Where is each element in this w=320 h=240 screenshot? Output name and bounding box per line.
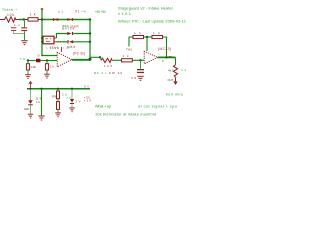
junction node (90,19.5) xyxy=(89,18,91,20)
wire mid-chain down to op-amp U3 top xyxy=(146,37,148,51)
wire branch capacitor C1 (x24 down) xyxy=(24,20,26,28)
ground below drop4 xyxy=(69,107,74,112)
svg-text:Stageguard v2 - Intake Heater: Stageguard v2 - Intake Heater xyxy=(118,5,174,10)
svg-text:1k: 1k xyxy=(123,54,130,58)
wire op-amp U3 output (thick) xyxy=(158,56,176,58)
diode D2 (points left) xyxy=(67,40,73,43)
wire divider left leg xyxy=(27,61,29,64)
svg-text:zd: zd xyxy=(67,96,71,100)
svg-text:BAT54: BAT54 xyxy=(62,26,74,30)
svg-text:10k thermistor at intake manif: 10k thermistor at intake manifold xyxy=(95,113,156,117)
resistor R11 (vertical box) xyxy=(57,102,60,110)
wire vertical bus x90 xyxy=(89,20,91,60)
svg-text:OUT: OUT xyxy=(168,78,174,82)
wire D2 to bus xyxy=(74,41,91,43)
output arrow down xyxy=(175,78,177,82)
label pin 2 marker (red on output wire) xyxy=(169,56,172,57)
supply symbol above bottom rail xyxy=(30,84,32,88)
junction node (72,88.7) xyxy=(71,88,73,90)
resistor R9 (vertical zigzag) xyxy=(173,65,177,78)
wire stub down into R5 xyxy=(100,57,102,60)
wire vertical net +IN (x42) down to op-amp input xyxy=(42,10,57,56)
wire R3 to ground xyxy=(27,70,29,74)
junction node output/bus (90,59.5) xyxy=(89,58,92,61)
svg-text:10k: 10k xyxy=(31,65,37,69)
svg-text:FW 20: FW 20 xyxy=(109,71,122,75)
svg-text:IC1A: IC1A xyxy=(50,46,59,50)
svg-text:+5V: +5V xyxy=(84,99,91,103)
junction node (90,41.8) xyxy=(89,41,91,43)
svg-text:4k7: 4k7 xyxy=(168,68,173,72)
wire ZD1 to ground xyxy=(71,104,73,107)
LED D7 (points down) xyxy=(28,100,33,105)
resistor R1 (zigzag) with leads xyxy=(0,17,19,22)
optocoupler U2 inner marks xyxy=(45,38,51,42)
op-amp U3 (comparator triangle) xyxy=(144,51,158,64)
wire R4 to ground xyxy=(46,70,48,74)
junction node opto pin1 (42,38) xyxy=(41,37,43,39)
wire R8 right end corner down (feedback) xyxy=(163,37,167,57)
wire R7 to R8 xyxy=(144,36,153,38)
wire R5 to R6 xyxy=(112,59,122,61)
svg-text:X1 ~∿: X1 ~∿ xyxy=(75,9,86,13)
svg-text:+5V +5V: +5V +5V xyxy=(95,10,107,14)
op-amp U1 (comparator triangle) xyxy=(57,52,72,67)
junction node at (42,19.5) xyxy=(41,18,43,20)
svg-text:v 1.0.1: v 1.0.1 xyxy=(118,11,132,16)
wire LED to ground xyxy=(30,106,32,114)
svg-text:(MC33): (MC33) xyxy=(158,47,171,51)
junction node (100,57.3) xyxy=(99,56,101,58)
ground below R3 xyxy=(25,74,31,79)
ground below C5 xyxy=(137,76,143,81)
junction node (30.5,88.7) xyxy=(29,88,31,90)
opto right pin stubs (red) xyxy=(54,38,57,42)
wire op-amp U1 output (thick) xyxy=(72,59,90,61)
svg-text:5V: 5V xyxy=(84,84,89,88)
wire from C2 to C1 net xyxy=(14,31,25,33)
op-amp U1 power stub xyxy=(61,47,63,52)
svg-text:lm: lm xyxy=(63,46,70,50)
svg-text:Therm +: Therm + xyxy=(2,8,17,12)
junction node at (24,19.5) xyxy=(23,18,25,20)
svg-text:a1: a1 xyxy=(58,10,63,14)
resistor R4 (vertical box) xyxy=(45,64,48,70)
resistor R2 (box) with red leads xyxy=(25,18,42,21)
capacitor C2 plates xyxy=(11,27,16,31)
resistor R10 (vertical box) xyxy=(57,91,60,99)
capacitor C5 plates xyxy=(137,69,144,73)
wire after D4 into op-amp xyxy=(40,60,57,62)
wire output corner down xyxy=(175,57,177,64)
diode D1 (points right) xyxy=(67,32,73,35)
supply pin marker at top of vertical net xyxy=(41,8,43,10)
wire divider right leg xyxy=(46,61,48,64)
zener diode ZD1 (points down) xyxy=(70,99,74,104)
wire main top rail (left part) xyxy=(19,19,25,21)
svg-text:1n: 1n xyxy=(14,23,20,27)
wire op-amp U1 lower input xyxy=(28,60,36,62)
node label THERM (green, top-left) xyxy=(2,8,17,12)
wire opto top output (steps up, goes right) xyxy=(57,34,68,39)
svg-text:3V: 3V xyxy=(76,99,81,103)
svg-text:D4: D4 xyxy=(38,54,43,58)
svg-text:(PC 3x): (PC 3x) xyxy=(73,51,85,55)
inline diode D5 on top rail (x53-59) xyxy=(53,18,58,21)
junction node opto pin2 (42,41.8) xyxy=(41,41,43,43)
svg-text:1k: 1k xyxy=(36,100,41,104)
svg-text:o1: o1 xyxy=(181,68,186,72)
ground below drop3 xyxy=(55,112,61,117)
ground symbol below C1 xyxy=(21,40,27,45)
svg-text:1k: 1k xyxy=(153,31,161,35)
ground below LED xyxy=(28,114,33,119)
junction node (58,88.7) xyxy=(57,88,59,90)
junction node (90,33.5) xyxy=(89,32,91,34)
svg-text:at cut signal + cpu: at cut signal + cpu xyxy=(138,105,177,109)
resistor R5 (zigzag) xyxy=(101,58,112,62)
svg-text:LED: LED xyxy=(24,107,29,111)
wire output to R5 xyxy=(90,56,101,58)
wire between stack xyxy=(57,99,59,102)
wire main top rail (right part to corner x90) xyxy=(42,19,91,21)
wire drop 1 (LED branch) xyxy=(30,90,32,101)
svg-text:TH: TH xyxy=(20,57,25,61)
optocoupler U2 (box) xyxy=(43,36,54,44)
diode D4 (solid, on input wire) xyxy=(36,59,40,63)
svg-text:1k: 1k xyxy=(50,65,55,69)
svg-text:1k5: 1k5 xyxy=(104,64,112,68)
svg-text:BK.4 L: BK.4 L xyxy=(94,71,107,75)
junction node feedback (166.5,57.4) xyxy=(165,56,167,58)
junction node (47,60.5) xyxy=(46,59,48,61)
junction node (147,37) xyxy=(146,36,148,38)
svg-text:What + up: What + up xyxy=(95,105,111,109)
bottom power rail (thick) xyxy=(27,88,90,90)
resistor R3 (vertical box) xyxy=(26,64,29,70)
svg-text:R9: R9 xyxy=(52,95,56,99)
wire opto bottom output xyxy=(57,41,68,43)
resistor R8 (box) xyxy=(152,36,163,39)
svg-text:2: 2 xyxy=(162,59,164,63)
wire drop 2 xyxy=(41,90,43,116)
wire drop 3 (resistor stack) xyxy=(57,90,59,92)
wire drop 4 (zener branch) xyxy=(71,90,73,100)
capacitor C1 plates xyxy=(21,27,27,31)
junction node (28,60.5) xyxy=(27,59,29,61)
wire R6 to op-amp U3 xyxy=(132,59,144,61)
junction node (140.5,60.3) xyxy=(139,59,141,61)
resistor R7 (box) xyxy=(133,36,144,39)
svg-text:C5: C5 xyxy=(131,76,136,80)
svg-text:TH2: TH2 xyxy=(126,48,132,52)
svg-text:Wheel: PIC - Last update 2009-: Wheel: PIC - Last update 2009-03-11 xyxy=(118,19,187,24)
junction node (41.5,88.7) xyxy=(40,88,42,90)
ground below R4 xyxy=(44,74,50,79)
wire C5 drop xyxy=(140,60,142,69)
ground below drop2 xyxy=(38,116,44,121)
wire feedback chain left end (corner down) xyxy=(129,37,133,47)
wire below C1 xyxy=(24,31,26,40)
svg-text:bell-wire: bell-wire xyxy=(166,93,183,97)
wire D1 to bus xyxy=(74,33,91,35)
resistor R6 (box) xyxy=(122,59,133,62)
wire R11 to ground xyxy=(57,109,59,112)
inline diode D6 on top rail (x67-74) xyxy=(67,18,73,21)
svg-text:1k: 1k xyxy=(30,12,36,16)
svg-text:1k: 1k xyxy=(134,31,142,35)
